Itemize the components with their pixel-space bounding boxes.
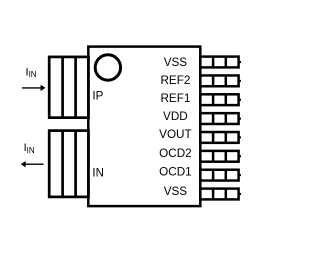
pin 8 ladder (VSS) <box>200 189 241 200</box>
IC body U1 <box>88 47 200 207</box>
svg-text:REF2: REF2 <box>160 74 190 87</box>
pin 1 ladder (VSS) <box>200 57 241 68</box>
current arrow IIN (bottom, pointing left) <box>21 161 44 167</box>
pin 3 ladder (REF1) <box>200 94 241 105</box>
current arrow IIN (top, pointing right) <box>22 85 46 91</box>
pin 2 ladder (REF2) <box>200 75 241 86</box>
svg-text:OCD1: OCD1 <box>159 166 191 179</box>
svg-text:VSS: VSS <box>164 185 188 198</box>
pin 7 ladder (OCD1) <box>200 170 241 181</box>
pin 6 ladder (OCD2) <box>200 151 241 162</box>
svg-text:VDD: VDD <box>163 110 188 123</box>
IN fused lead group (left bottom) <box>49 131 88 197</box>
svg-text:VSS: VSS <box>164 56 188 69</box>
pin 4 ladder (VDD) <box>200 113 241 124</box>
svg-text:REF1: REF1 <box>160 92 190 105</box>
pin 5 ladder (VOUT) <box>200 132 241 143</box>
pin-1 marker circle <box>95 55 120 80</box>
svg-text:VOUT: VOUT <box>159 128 191 141</box>
svg-text:IN: IN <box>92 168 104 180</box>
svg-text:IP: IP <box>92 90 103 102</box>
svg-text:OCD2: OCD2 <box>159 147 191 160</box>
IP fused lead group (left top) <box>49 57 88 118</box>
